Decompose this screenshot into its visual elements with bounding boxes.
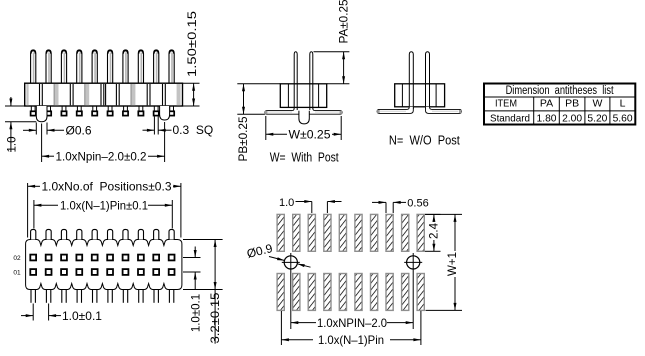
top-view pin 4 lower stub [76, 290, 78, 303]
pin 6 top [108, 50, 113, 84]
contact square row 02 pin 10 [169, 255, 175, 261]
contact square row 02 pin 1 [30, 255, 36, 261]
svg-text:1.0±0.1: 1.0±0.1 [190, 294, 202, 332]
N-version pin row 2 [409, 52, 413, 109]
top-view pin 6 lower stub [107, 290, 109, 303]
pad bottom row 2 [293, 274, 300, 311]
contact square row 01 pin 2 [46, 269, 52, 275]
top-view pin 3 lower stub [61, 290, 63, 303]
top-view pin 7 lower stub [122, 290, 124, 303]
dimension 1.0 (post length) [5, 105, 25, 107]
pin 5 bottom tail [92, 106, 94, 112]
pad bottom row 5 [339, 274, 346, 311]
svg-text:Dimension antitheses list: Dimension antitheses list [506, 85, 615, 97]
pin 10 top [169, 50, 174, 84]
pin 9 top [154, 50, 159, 84]
top-view pin 3 upper stub [61, 229, 66, 239]
W-version pin row 2 [294, 52, 297, 110]
svg-text:2.00: 2.00 [562, 112, 582, 124]
contact square row 01 pin 10 [169, 269, 175, 275]
pad bottom row 9 [402, 274, 409, 311]
svg-text:PB±0.25: PB±0.25 [238, 117, 250, 162]
pin 7 top [123, 50, 128, 84]
top-view pin 10 lower stub [168, 290, 170, 303]
dimension 1.0xNo.of Positions±0.3 [27, 183, 29, 238]
top-view body outline [26, 240, 182, 290]
svg-text:1.0x(N–1)Pin: 1.0x(N–1)Pin [318, 333, 384, 347]
contact square row 02 pin 2 [46, 255, 52, 261]
pin 2 top [46, 50, 51, 84]
pad top row 6 [355, 214, 362, 251]
pad bottom row 4 [324, 274, 331, 311]
top-view pin 2 lower stub [45, 290, 47, 303]
svg-text:0.56: 0.56 [407, 197, 428, 209]
top-view pin 1 upper stub [31, 229, 36, 239]
dimension PB±0.25 [237, 83, 280, 85]
pad bottom row 6 [355, 274, 362, 311]
pin 1 top [31, 50, 36, 84]
dimension 0.56 (pad width) [372, 201, 386, 203]
pin 8 bottom tail [138, 106, 140, 112]
contact square row 01 pin 5 [92, 269, 98, 275]
top-view pin 6 upper stub [108, 229, 113, 239]
svg-text:Ø0.6: Ø0.6 [66, 123, 92, 137]
svg-text:PA: PA [540, 97, 553, 109]
svg-text:PB: PB [565, 97, 579, 109]
top-view pin 8 lower stub [138, 290, 140, 303]
body (insulator) side view [25, 83, 183, 106]
svg-text:5.60: 5.60 [613, 112, 633, 124]
W-version pin row 1 [310, 52, 313, 110]
pin 8 top [138, 50, 143, 84]
svg-text:Standard: Standard [490, 112, 530, 124]
pad bottom row 7 [371, 274, 378, 311]
dimension W±0.25 [265, 116, 267, 140]
dimension 1.50±0.15 (body height) [183, 82, 200, 84]
pin 1 bottom tail [30, 106, 32, 112]
body segment boundary 8 [146, 84, 148, 105]
pad top row 10 [417, 214, 424, 251]
pad bottom row 1 [277, 274, 284, 311]
svg-text:W+1: W+1 [447, 252, 459, 276]
svg-text:W: W [592, 97, 602, 109]
svg-text:W±0.25: W±0.25 [289, 128, 331, 142]
N-version left SMT lead [377, 107, 413, 114]
contact square row 02 pin 8 [138, 255, 144, 261]
right tooling hole [407, 256, 420, 269]
pad bottom row 8 [386, 274, 393, 311]
top-view pin 10 upper stub [169, 229, 174, 239]
right extension lines of top view [183, 239, 223, 241]
pad top row 2 [293, 214, 300, 251]
pin 10 bottom tail [169, 106, 171, 112]
dimension 1.0xNpin-2.0±0.2 [41, 124, 43, 163]
pin 9 bottom tail [153, 106, 155, 112]
contact square row 02 pin 3 [61, 255, 67, 261]
top-view pin 7 upper stub [123, 229, 128, 239]
svg-text:1.0: 1.0 [279, 197, 294, 209]
pin 4 top [77, 50, 82, 84]
top-view pin 4 upper stub [77, 229, 82, 239]
svg-text:PA±0.25: PA±0.25 [338, 0, 350, 44]
svg-text:1.0x(N–1)Pin±0.1: 1.0x(N–1)Pin±0.1 [60, 199, 148, 213]
contact square row 02 pin 4 [76, 255, 82, 261]
top-view pin 1 lower stub [30, 290, 32, 303]
top-view pin 9 lower stub [153, 290, 155, 303]
top-view pin 9 upper stub [154, 229, 159, 239]
contact square row 01 pin 1 [30, 269, 36, 275]
dimension W+1 (vertical) [425, 213, 462, 215]
svg-text:N= W/O Post: N= W/O Post [389, 134, 460, 148]
pad bottom row 10 [417, 274, 424, 311]
contact square row 01 pin 9 [153, 269, 159, 275]
contact square row 02 pin 7 [123, 255, 129, 261]
dimension 1.0±0.1 (row spacing, vertical) [194, 247, 196, 258]
svg-text:W= With Post: W= With Post [270, 151, 339, 165]
svg-text:1.80: 1.80 [537, 112, 557, 124]
pin 6 bottom tail [107, 106, 109, 112]
N-version body [395, 84, 445, 107]
contact square row 01 pin 3 [61, 269, 67, 275]
svg-text:1.0xNpin–2.0±0.2: 1.0xNpin–2.0±0.2 [56, 150, 147, 164]
dimension 1.0xNPIN-2.0 [291, 322, 316, 324]
svg-text:3.2±0.15: 3.2±0.15 [210, 293, 222, 344]
svg-text:2.4: 2.4 [428, 222, 440, 239]
pin 7 bottom tail [123, 106, 125, 112]
body segment boundary 2 [54, 84, 58, 105]
pad bottom row 3 [308, 274, 315, 311]
body edge shading [26, 84, 28, 105]
dimension 1.0±0.1 (bottom pitch) [32, 304, 34, 321]
dimension 3.2±0.15 (vertical) [214, 240, 216, 290]
svg-text:0.3 SQ: 0.3 SQ [173, 123, 214, 137]
dimension 1.0x(N-1)Pin [280, 311, 282, 345]
svg-text:5.20: 5.20 [587, 112, 607, 124]
dimension 2.4 (pad height) [425, 213, 441, 215]
W-version right SMT lead [309, 107, 342, 114]
W-version left SMT lead [265, 107, 299, 114]
pad top row 1 [277, 214, 284, 251]
contact square row 02 pin 5 [92, 255, 98, 261]
dimension Ø0.6 (post dia) [35, 123, 37, 135]
N-version pin row 1 [426, 52, 430, 109]
left tooling hole [284, 256, 297, 269]
W-version body [280, 84, 326, 108]
body segment boundary 4 [85, 84, 89, 105]
contact square row 01 pin 8 [138, 269, 144, 275]
svg-text:1.50±0.15: 1.50±0.15 [187, 11, 199, 77]
svg-text:1.0xNPIN–2.0: 1.0xNPIN–2.0 [317, 316, 387, 330]
body segment boundary 7 [131, 84, 135, 105]
right locating post [160, 106, 170, 120]
pin 4 bottom tail [76, 106, 78, 112]
svg-text:L: L [620, 97, 626, 109]
body segment boundary 9 [162, 84, 164, 105]
body segment boundary 6 [115, 84, 117, 105]
top-view pin 8 upper stub [138, 229, 143, 239]
contact square row 02 pin 6 [107, 255, 113, 261]
body segment boundary 1 [39, 84, 41, 105]
top-view pin 2 upper stub [46, 229, 51, 239]
pad top row 9 [402, 214, 409, 251]
pin 2 bottom tail [46, 106, 48, 112]
pad top row 8 [386, 214, 393, 251]
svg-text:1.0±0.1: 1.0±0.1 [62, 309, 102, 323]
svg-text:1.0: 1.0 [7, 137, 19, 153]
contact square row 01 pin 6 [107, 269, 113, 275]
pad top row 7 [371, 214, 378, 251]
svg-text:01: 01 [13, 270, 21, 277]
dimension PA±0.25 [314, 51, 350, 53]
pad top row 3 [308, 214, 315, 251]
contact square row 01 pin 7 [123, 269, 129, 275]
svg-text:1.0xNo.of Positions±0.3: 1.0xNo.of Positions±0.3 [42, 180, 172, 194]
pin 3 bottom tail [61, 106, 63, 112]
top-view pin 5 upper stub [92, 229, 97, 239]
dimension 1.0x(N-1)Pin±0.1 [33, 200, 35, 229]
W-version center post [299, 111, 309, 124]
body segment boundary 5 [100, 84, 102, 105]
body segment boundary 3 [69, 84, 71, 105]
N-version right SMT lead [426, 107, 462, 114]
dimension 0.3 SQ (pin square) [153, 117, 155, 135]
contact square row 02 pin 9 [153, 255, 159, 261]
contact square row 01 pin 4 [76, 269, 82, 275]
svg-text:02: 02 [13, 255, 21, 262]
svg-text:ITEM: ITEM [495, 97, 517, 109]
pad top row 5 [339, 214, 346, 251]
pad top row 4 [324, 214, 331, 251]
top-view pin 5 lower stub [92, 290, 94, 303]
pin 5 top [92, 50, 97, 84]
pin 3 top [61, 50, 66, 84]
left locating post [36, 106, 47, 122]
